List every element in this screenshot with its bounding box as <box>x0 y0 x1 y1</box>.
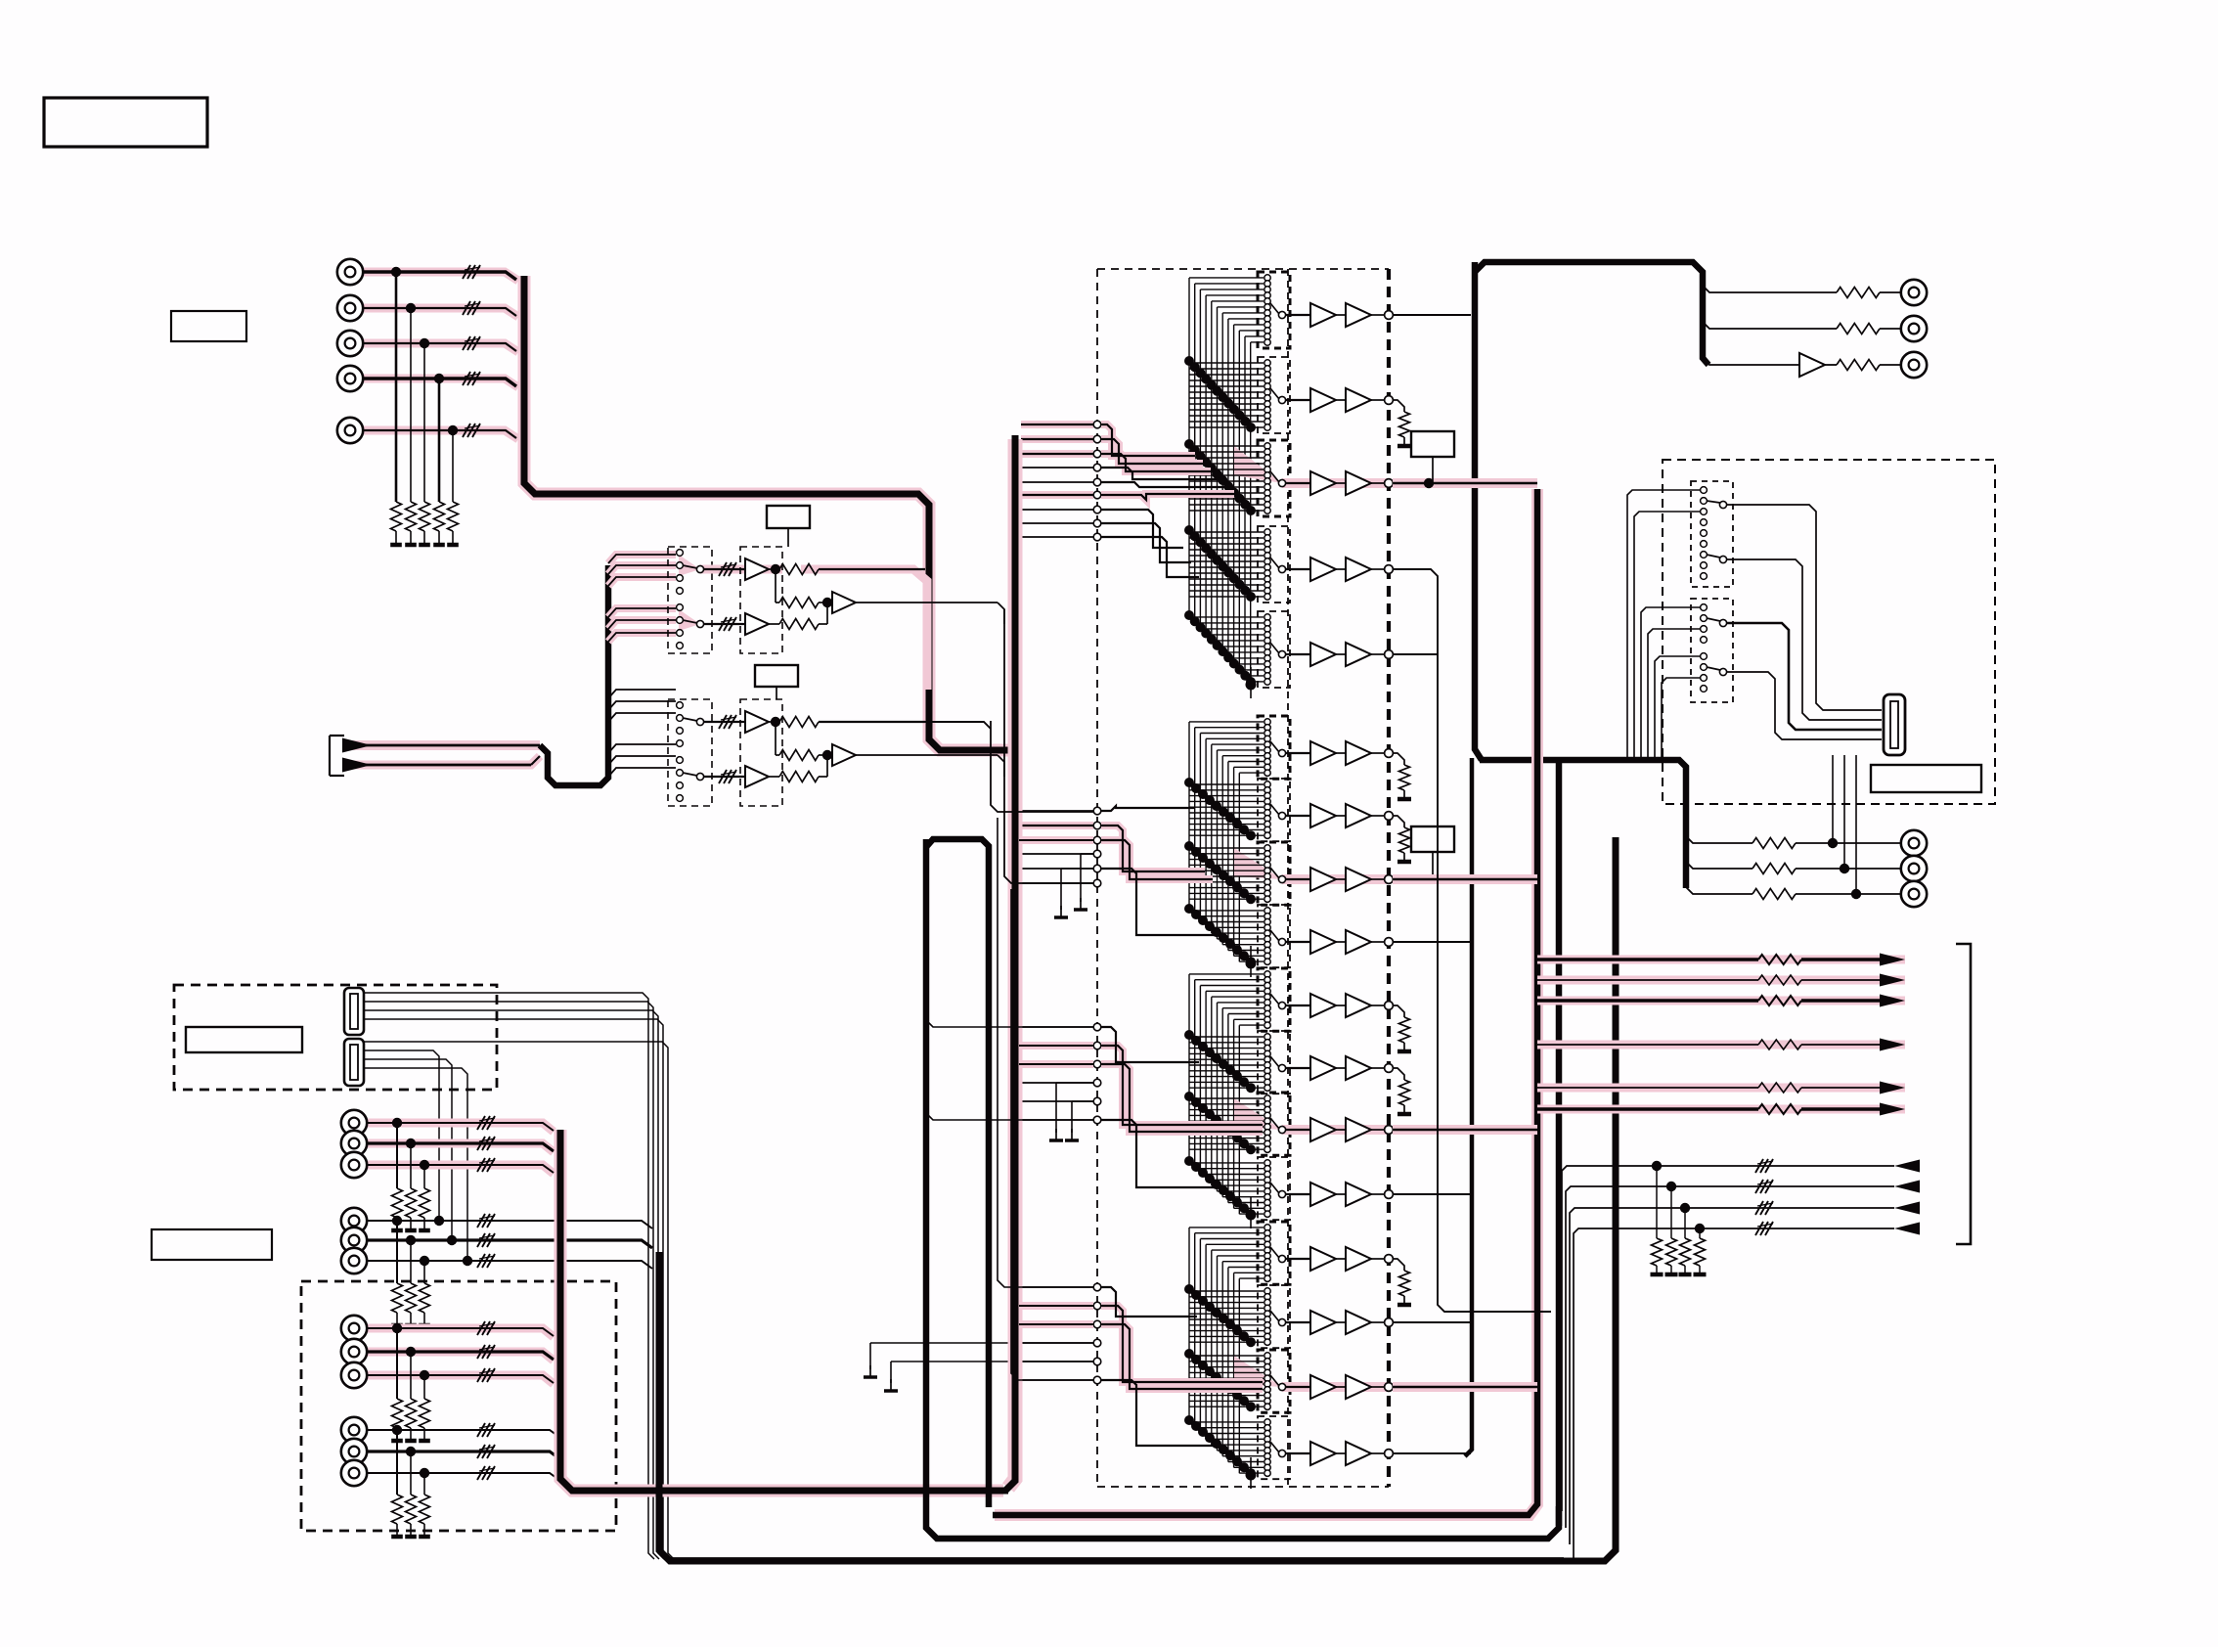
input jack J5 with pulldown resistor <box>337 418 516 545</box>
selector row y=582 contact box <box>1258 526 1290 603</box>
selector row y=1486 contacts <box>1264 1419 1286 1477</box>
row y=1028 wiper wire <box>1286 1005 1310 1006</box>
harness bottom run <box>669 1557 1564 1559</box>
row y=582 wiper wire <box>1286 568 1310 570</box>
gang chain dot y=1508 <box>1246 1457 1257 1489</box>
row y=1028 output resistor <box>1393 1005 1411 1051</box>
buffer U899b <box>1346 868 1371 891</box>
buffer amp b SB1 <box>745 613 769 635</box>
wire w/ hatch a SB1 <box>704 562 745 576</box>
rca jack y=1191 VG1 <box>341 1152 554 1230</box>
row y=494 output node <box>1336 479 1393 488</box>
buffer U409b <box>1346 388 1371 412</box>
switch gang diagonal y=834 <box>1184 778 1256 840</box>
input jack J3 with pulldown resistor <box>337 331 516 545</box>
switch gang diagonal y=409 <box>1184 356 1256 432</box>
buffer U1221a <box>1310 1183 1336 1206</box>
pink highlight arrows-in <box>342 745 540 765</box>
pink out arrow hl 1 <box>1537 956 1905 964</box>
bus VB pink vertical <box>993 489 1537 1515</box>
input jack J2 with pulldown resistor <box>337 295 516 545</box>
T3 x1011 bridge <box>926 839 989 1507</box>
selector row y=1418 contacts <box>1264 1353 1286 1410</box>
bus T1 (thick, pink) <box>524 276 1015 750</box>
stub grounds SG2 <box>1054 854 1093 917</box>
switch gang diagonal y=669 <box>1184 610 1256 687</box>
buffer U1486b <box>1346 1442 1371 1465</box>
label box D <box>1871 765 1981 792</box>
buffer U322a <box>1310 303 1336 327</box>
selector row y=1155 contacts <box>1264 1095 1286 1153</box>
bus VA lower collector <box>1465 758 1472 1456</box>
right switch SW3 <box>1701 604 1727 644</box>
selector row y=494 fan <box>1189 446 1264 511</box>
pink wedge row y=494 <box>1234 446 1389 483</box>
buffer U899a <box>1310 868 1336 891</box>
selector row y=409 contact box <box>1258 357 1290 433</box>
rca jack y=1169 VG1 <box>341 1131 554 1230</box>
matrix bus bundle group 3 <box>1189 974 1239 1214</box>
pink stub steps SG4 <box>1101 1306 1263 1389</box>
row y=409 wiper wire <box>1286 399 1310 401</box>
buffer U834a <box>1310 804 1336 827</box>
selector row y=1221 contacts <box>1264 1160 1286 1218</box>
selector row y=669 fan <box>1189 617 1264 682</box>
row y=834 wiper wire <box>1286 815 1310 817</box>
selector switch SW-b SB1 <box>677 604 704 649</box>
label box C <box>186 1027 302 1052</box>
stub steps SG3 <box>1101 1027 1263 1187</box>
pink out arrow 2 <box>1537 974 1905 987</box>
selector row y=669 contact box <box>1258 611 1290 688</box>
selector feed bus <box>540 565 608 785</box>
row y=669 wiper wire <box>1286 653 1310 655</box>
rca jack y=1148 VG1 <box>341 1110 554 1230</box>
right rca out 1 <box>1686 830 1927 856</box>
right box feed lines <box>1627 490 1700 762</box>
row y=1155 out to VB (pink) <box>1393 1125 1537 1135</box>
pink highlight rca wires VG3 <box>367 1328 554 1384</box>
buffer U669a <box>1310 643 1336 666</box>
connector down wires <box>1828 755 1861 899</box>
row y=1352 out to VA <box>1393 1321 1471 1323</box>
right switch SW4 <box>1701 653 1727 692</box>
left input bracket <box>330 736 344 776</box>
right dashed box <box>1663 460 1995 804</box>
buffer U494b <box>1346 471 1371 495</box>
connector CN3 <box>1884 694 1905 755</box>
rca jack y=1289 VG2 <box>341 1248 652 1325</box>
right sw box 2 <box>1691 599 1733 702</box>
input jack J4 with pulldown resistor <box>337 366 516 545</box>
selector row y=899 contact box <box>1258 842 1290 905</box>
row y=1221 out to VA <box>1393 1193 1471 1195</box>
IC label L1 <box>767 506 810 547</box>
label box A <box>171 311 246 341</box>
stub steps SG4 <box>1101 1287 1263 1446</box>
switch gang diagonal y=582 <box>1184 525 1256 602</box>
selector bus branches pink <box>608 555 676 642</box>
row y=322 out to VA <box>1393 314 1471 316</box>
switch gang diagonal y=1352 <box>1184 1284 1256 1347</box>
buffer amp mid SB1 <box>832 592 856 613</box>
right sw box 1 <box>1691 481 1733 587</box>
pink out arrow hl 3 <box>1537 997 1905 1005</box>
selector row y=322 contact box <box>1258 272 1290 348</box>
selector row y=322 contacts <box>1264 275 1286 345</box>
right rca out 3 <box>1686 881 1927 907</box>
pink stub steps SG3 <box>1101 1046 1263 1132</box>
row y=322 wiper wire <box>1286 314 1310 316</box>
pink out arrow hl 6 <box>1537 1105 1905 1114</box>
row y=582 output node <box>1336 565 1393 574</box>
buffer amp mid SB2 <box>832 744 856 766</box>
selector row y=669 contacts <box>1264 614 1286 685</box>
dashed box DIGITAL <box>174 985 497 1090</box>
buffer U1287a <box>1310 1247 1336 1271</box>
row y=1221 output node <box>1336 1190 1393 1199</box>
selector row y=1092 fan <box>1189 1037 1264 1088</box>
arrow-in line 3 <box>1570 1201 1920 1544</box>
bus T4 (pink vertical left) <box>560 1130 1008 1491</box>
label box B <box>152 1229 272 1260</box>
arrow-in line 2 <box>1566 1180 1920 1528</box>
matrix outer dashed box <box>1097 269 1389 1487</box>
pink highlight top-left wires <box>363 272 518 439</box>
selector row y=1092 contacts <box>1264 1034 1286 1092</box>
big bracket <box>1956 944 1971 1244</box>
pink out arrow hl 2 <box>1537 976 1905 985</box>
selector row y=409 fan <box>1189 363 1264 427</box>
selector mid output SB2 <box>856 755 1004 777</box>
matrix stubs SG4 <box>1021 1283 1101 1384</box>
row y=1486 out to VA <box>1393 1452 1471 1454</box>
input jack J1 with pulldown resistor <box>337 259 516 545</box>
row y=899 out to VB (pink) <box>1393 874 1537 884</box>
buffer U582a <box>1310 558 1336 581</box>
matrix stubs SG3 <box>1021 1023 1101 1124</box>
row y=1221 wiper wire <box>1286 1193 1310 1195</box>
row y=1092 output resistor <box>1393 1068 1411 1114</box>
pink wedge row y=1418 <box>1234 1356 1389 1387</box>
row 582/669 collector <box>1393 569 1551 1312</box>
pink out arrow hl 4 <box>1537 1041 1905 1049</box>
switch gang diagonal y=1221 <box>1184 1156 1256 1219</box>
switch gang diagonal y=1155 <box>1184 1092 1256 1154</box>
selector row y=494 contacts <box>1264 443 1286 513</box>
selector row y=834 fan <box>1189 784 1264 835</box>
pink out arrow 6 <box>1537 1103 1905 1116</box>
row y=963 out to VA <box>1393 941 1471 943</box>
selector switch SW-b SB2 <box>677 757 704 802</box>
selector outputs to stubs <box>926 609 1093 1380</box>
row y=1418 wiper wire <box>1286 1386 1310 1388</box>
selector row y=582 fan <box>1189 532 1264 597</box>
selector row y=1028 contacts <box>1264 971 1286 1029</box>
buffer U963a <box>1310 930 1336 954</box>
buffer U770a <box>1310 741 1336 765</box>
buffer U409a <box>1310 388 1336 412</box>
buffer U1287b <box>1346 1247 1371 1271</box>
rca jack y=1506 VG4 <box>341 1460 560 1537</box>
selector row y=963 contacts <box>1264 908 1286 965</box>
selector row y=1287 contact box <box>1258 1222 1290 1284</box>
selector switch SW-a SB2 <box>677 702 704 747</box>
selector row y=1155 contact box <box>1258 1093 1290 1155</box>
row y=669 output node <box>1336 650 1393 659</box>
row y=1418 output node <box>1336 1383 1393 1392</box>
T2 pink branches <box>1019 840 1093 1324</box>
arrow-in termination 3 <box>1679 1203 1692 1274</box>
selector row y=899 contacts <box>1264 845 1286 903</box>
arrow-in line 1 <box>342 738 540 753</box>
IC label L2 <box>755 665 798 699</box>
row y=899 output node <box>1336 875 1393 884</box>
selector row y=1352 contact box <box>1258 1285 1290 1348</box>
row y=1155 wiper wire <box>1286 1129 1310 1131</box>
selector row y=1287 contacts <box>1264 1225 1286 1282</box>
row y=1486 wiper wire <box>1286 1452 1310 1454</box>
bus T2 (thick pink vertical) <box>1005 435 1015 1491</box>
buffer U1155a <box>1310 1118 1336 1141</box>
stub grounds SG4 <box>864 1343 1093 1391</box>
resistor row mid SB1 <box>776 569 832 608</box>
pink highlight selector SB1 <box>679 555 927 690</box>
selector row y=770 contact box <box>1258 716 1290 779</box>
buffer U963b <box>1346 930 1371 954</box>
right box wiper wires <box>1727 505 1882 739</box>
top-right output 2 <box>1703 316 1927 341</box>
row y=409 output node <box>1336 396 1393 405</box>
row y=1092 output node <box>1336 1064 1393 1073</box>
connector harness wires <box>364 993 674 1559</box>
row y=1352 output node <box>1336 1318 1393 1327</box>
selector switch SW-a SB1 <box>677 550 704 595</box>
pink stub steps SG2 <box>1101 826 1213 879</box>
gang chain dot y=700 <box>1246 667 1257 698</box>
selector row y=770 fan <box>1189 722 1264 773</box>
row y=899 wiper wire <box>1286 878 1310 880</box>
buffer amp a SB1 <box>745 558 769 580</box>
resistor after buffer b SB1 <box>769 603 827 630</box>
selector row y=1418 contact box <box>1258 1350 1290 1412</box>
pink out arrow hl 5 <box>1537 1084 1905 1093</box>
buffer U1155b <box>1346 1118 1371 1141</box>
title box <box>44 98 207 147</box>
selector row y=1092 contact box <box>1258 1031 1290 1094</box>
bus T3 (thick black mid) <box>926 839 1559 1539</box>
right switch SW1 <box>1701 487 1727 537</box>
switch gang diagonal y=1486 <box>1184 1415 1256 1478</box>
selector row y=1221 fan <box>1189 1163 1264 1214</box>
matrix stubs SG1 <box>1021 421 1101 541</box>
row y=1352 wiper wire <box>1286 1321 1310 1323</box>
resistor row mid SB2 <box>776 722 832 761</box>
switch gang diagonal y=1092 <box>1184 1030 1256 1093</box>
row y=963 output node <box>1336 938 1393 947</box>
buffer U1486a <box>1310 1442 1336 1465</box>
selector row y=834 contacts <box>1264 781 1286 839</box>
selector row y=1155 fan <box>1189 1098 1264 1149</box>
row y=1287 output node <box>1336 1255 1393 1264</box>
connector CN2 <box>344 1039 364 1086</box>
pink wedge row y=1155 <box>1234 1098 1389 1130</box>
selector row y=1352 contacts <box>1264 1288 1286 1346</box>
bus VA-VD route <box>1480 760 1686 888</box>
buffer U582b <box>1346 558 1371 581</box>
buffer U1028b <box>1346 994 1371 1017</box>
wire w/ hatch b SB2 <box>704 770 745 783</box>
selector row y=1028 fan <box>1189 974 1264 1025</box>
arrow-in termination 1 <box>1651 1161 1663 1274</box>
IC label rect y=834 <box>1411 826 1454 877</box>
row y=494 wiper wire <box>1286 482 1310 484</box>
buffer U1092a <box>1310 1056 1336 1080</box>
arrow-in termination 4 <box>1694 1224 1707 1274</box>
selector buffer box SB1 <box>740 547 782 653</box>
gang chain dot y=1242 <box>1246 1197 1257 1228</box>
row y=1486 output node <box>1336 1450 1393 1458</box>
bus VC vertical <box>1556 762 1563 1526</box>
rca jack y=1484 VG4 <box>341 1439 560 1537</box>
bus VA top route <box>1475 262 1708 365</box>
arrow-in line 2 <box>342 756 540 773</box>
pink out arrow 5 <box>1537 1082 1905 1094</box>
rca jack y=1358 VG3 <box>341 1316 554 1441</box>
row y=1287 output resistor <box>1393 1259 1411 1305</box>
pink out arrow 1 <box>1537 954 1905 966</box>
rca jack y=1462 VG4 <box>341 1417 560 1537</box>
selector row y=409 contacts <box>1264 360 1286 430</box>
selector bus branches <box>608 555 676 777</box>
arrow-in line 1 <box>1562 1159 1920 1511</box>
selector row y=1418 fan <box>1189 1356 1264 1406</box>
selector row y=1028 contact box <box>1258 968 1290 1031</box>
selector row y=963 fan <box>1189 911 1264 961</box>
row y=834 output node <box>1336 812 1393 821</box>
selector row y=770 contacts <box>1264 719 1286 777</box>
selector row y=963 contact box <box>1258 905 1290 967</box>
selector row y=1486 fan <box>1189 1422 1264 1473</box>
buffer U834b <box>1346 804 1371 827</box>
bus T5 (thick black bottom) <box>659 837 1616 1561</box>
row y=1028 output node <box>1336 1002 1393 1010</box>
buffer U1418b <box>1346 1375 1371 1399</box>
selector row y=1352 fan <box>1189 1291 1264 1342</box>
selector contact box SB1 <box>668 547 712 653</box>
selector contact box SB2 <box>668 699 712 806</box>
selector row y=1221 contact box <box>1258 1157 1290 1220</box>
top-right output 3 <box>1703 352 1927 378</box>
stub steps SG2 <box>1101 806 1220 935</box>
row y=963 wiper wire <box>1286 941 1310 943</box>
row y=770 wiper wire <box>1286 752 1310 754</box>
pink out arrow 3 <box>1537 995 1905 1007</box>
matrix bus bundle group 2 <box>1189 722 1239 961</box>
selector row y=1486 contact box <box>1258 1416 1290 1479</box>
arrow-in line 4 <box>1574 1222 1920 1561</box>
switch gang diagonal y=1418 <box>1184 1349 1256 1411</box>
selector row y=1287 fan <box>1189 1228 1264 1278</box>
buffer U1352b <box>1346 1311 1371 1334</box>
pink stub steps SG1 <box>1101 424 1234 500</box>
dashed box VIDEO2 <box>301 1281 616 1531</box>
matrix stubs SG2 <box>1021 807 1101 887</box>
row y=409 output resistor <box>1393 400 1411 446</box>
top-right output 1 <box>1703 280 1927 305</box>
resistor after buffer a SB1 <box>769 564 925 575</box>
matrix bus bundle group 1 <box>1189 278 1251 682</box>
connector CN1 <box>344 988 364 1035</box>
row y=770 output resistor <box>1393 753 1411 799</box>
buffer U1418a <box>1310 1375 1336 1399</box>
row y=494 out to VB (pink) <box>1393 478 1537 488</box>
IC label rect y=441 <box>1411 431 1454 481</box>
row y=1092 wiper wire <box>1286 1067 1310 1069</box>
row y=1418 out to VB (pink) <box>1393 1382 1537 1392</box>
buffer amp a SB2 <box>745 711 769 733</box>
gang chain dot y=985 <box>1246 946 1257 977</box>
right rca out 2 <box>1686 856 1927 881</box>
buffer U1028a <box>1310 994 1336 1017</box>
row y=770 output node <box>1336 749 1393 758</box>
buffer U1221b <box>1346 1183 1371 1206</box>
arrow-in termination 2 <box>1665 1182 1678 1274</box>
stub grounds SG3 <box>1049 1083 1093 1140</box>
stub steps SG1 <box>1101 424 1234 577</box>
matrix inner dashed divider <box>1287 269 1289 1487</box>
row y=322 output node <box>1336 311 1393 320</box>
switch gang diagonal y=899 <box>1184 841 1256 904</box>
row y=834 output resistor <box>1393 816 1411 862</box>
matrix bus bundle group 4 <box>1189 1228 1239 1473</box>
pink wedge row y=899 <box>1234 848 1389 879</box>
buffer amp b SB2 <box>745 766 769 787</box>
buffer U322b <box>1346 303 1371 327</box>
buffer U770b <box>1346 741 1371 765</box>
pink out arrow 4 <box>1537 1039 1905 1051</box>
rca jack y=1248 VG2 <box>341 1208 652 1325</box>
buffer U494a <box>1310 471 1336 495</box>
selector row y=899 fan <box>1189 848 1264 899</box>
row y=1287 wiper wire <box>1286 1258 1310 1260</box>
selector row y=834 contact box <box>1258 779 1290 841</box>
resistor after buffer b SB2 <box>769 755 827 782</box>
wire w/ hatch b SB1 <box>704 617 745 631</box>
buffer U1352a <box>1310 1311 1336 1334</box>
buffer U669b <box>1346 643 1371 666</box>
selector mid output SB1 <box>856 603 1004 624</box>
rca jack y=1406 VG3 <box>341 1362 554 1441</box>
resistor after buffer a SB2 <box>769 717 991 730</box>
selector row y=322 fan <box>1189 278 1264 342</box>
wire w/ hatch a SB2 <box>704 715 745 729</box>
pink highlight rca wires VG1 <box>367 1123 554 1174</box>
selector row y=494 contact box <box>1258 440 1290 516</box>
connector drops to VG2 <box>364 1050 472 1266</box>
rca jack y=1382 VG3 <box>341 1339 554 1441</box>
switch gang diagonal y=494 <box>1184 439 1256 515</box>
bus VA vertical <box>1475 262 1482 760</box>
rca jack y=1268 VG2 <box>341 1228 652 1325</box>
row y=1155 output node <box>1336 1126 1393 1135</box>
selector buffer box SB2 <box>740 699 782 806</box>
right switch SW2 <box>1701 541 1727 580</box>
selector row y=582 contacts <box>1264 529 1286 600</box>
buffer U1092b <box>1346 1056 1371 1080</box>
switch gang diagonal y=963 <box>1184 904 1256 966</box>
